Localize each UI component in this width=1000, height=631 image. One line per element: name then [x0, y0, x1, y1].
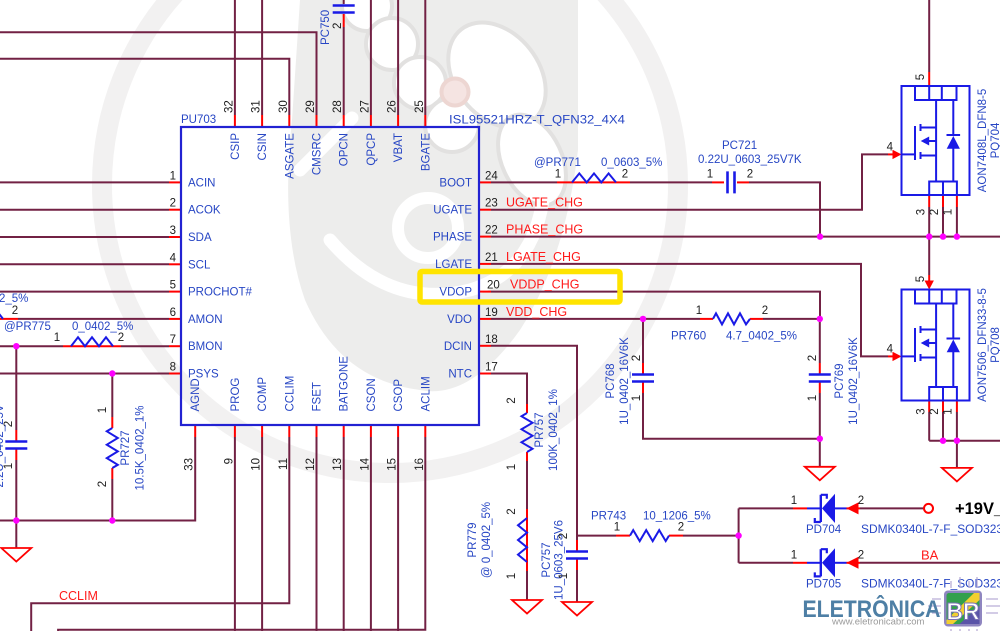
svg-text:5: 5: [915, 276, 927, 282]
svg-text:16: 16: [414, 458, 426, 471]
wire PC768 upper lead: [642, 319, 644, 363]
svg-text:BA: BA: [921, 548, 939, 563]
svg-text:4: 4: [887, 141, 894, 153]
rotated labels PQ708: [915, 276, 1000, 415]
junction PHASE_CHG at boot cap: [817, 233, 823, 239]
svg-text:PC769: PC769: [834, 363, 846, 398]
watermark fist-in-gear logo background: [102, 0, 678, 473]
red pin stubs of PU703: [169, 115, 491, 437]
svg-text:9: 9: [223, 458, 235, 464]
svg-text:NTC: NTC: [448, 369, 472, 381]
pin names bottom (rotated): [190, 356, 432, 412]
diode PD705: [807, 548, 847, 577]
wire cap to ground net: [15, 460, 17, 521]
svg-text:2: 2: [332, 23, 344, 29]
junction source bus at PQ708 pin1: [954, 438, 960, 444]
junction cap ground bus: [817, 436, 823, 442]
pin names top (rotated): [230, 133, 432, 179]
wire PC769 lower lead: [819, 393, 821, 439]
svg-text:14: 14: [359, 457, 371, 470]
wire PROG pin 9 down: [234, 437, 236, 631]
svg-text:PC721: PC721: [722, 140, 757, 152]
rotated labels PC757: [541, 520, 570, 600]
svg-text:1: 1: [506, 573, 518, 579]
rotated labels PR779: [467, 502, 518, 579]
wire net ASGATE horizontal + vertical to pin 30: [0, 59, 289, 115]
svg-text:4.7_0402_5%: 4.7_0402_5%: [726, 331, 797, 343]
svg-text:2: 2: [558, 533, 570, 539]
wire pin 28 below PC750: [343, 27, 345, 115]
ground symbol at PC757: [562, 602, 592, 616]
junction on AGND bus at PR727: [109, 517, 115, 523]
svg-text:2: 2: [858, 549, 864, 561]
svg-text:CSOP: CSOP: [393, 379, 405, 412]
capacitor PC750: [333, 6, 355, 13]
wire ACOK pin 2: [0, 209, 169, 211]
wire UGATE pin 23 to PQ704 gate: [491, 154, 888, 209]
wire PQ704 pin 5 to top edge: [928, 0, 930, 72]
ground symbol at PC769: [805, 467, 835, 481]
capacitor at bottom-left edge: [5, 442, 27, 449]
pin arrow into PQ708 gate: [893, 352, 902, 361]
svg-text:PC757: PC757: [541, 542, 553, 577]
wire BATGONE pin 13 down: [343, 437, 345, 631]
svg-text:0_0402_5%: 0_0402_5%: [72, 321, 133, 333]
svg-text:CSON: CSON: [366, 378, 378, 411]
svg-text:33: 33: [184, 458, 196, 471]
svg-text:PQ708: PQ708: [990, 327, 1000, 363]
capacitor PC757: [566, 552, 588, 559]
svg-text:OPCN: OPCN: [339, 133, 351, 166]
svg-text:@PR775: @PR775: [4, 321, 51, 333]
svg-text:4: 4: [887, 343, 894, 355]
resistor PR727 (vertical): [107, 428, 118, 468]
wire PR760 to PC769 junction: [763, 318, 820, 320]
wire net CSIN to top edge: [261, 0, 263, 115]
svg-text:5: 5: [915, 74, 927, 80]
wire PR779 to ground: [526, 571, 528, 600]
junction on BMON net: [13, 343, 19, 349]
svg-text:ISL95521HRZ-T_QFN32_4X4: ISL95521HRZ-T_QFN32_4X4: [449, 115, 626, 127]
svg-text:1: 1: [558, 573, 570, 579]
svg-text:PR779: PR779: [467, 522, 479, 557]
svg-text:PD705: PD705: [806, 579, 841, 591]
ground symbol at bottom-left cap: [1, 467, 972, 616]
svg-text:1: 1: [791, 549, 797, 561]
svg-text:1: 1: [97, 407, 109, 413]
junction on AGND bus left: [13, 517, 19, 523]
wire PHASE down to PQ708 pin 5: [928, 237, 930, 275]
wire net CSIP to top edge: [234, 0, 236, 115]
svg-text:FSET: FSET: [312, 382, 324, 411]
svg-text:BGATE: BGATE: [420, 133, 432, 171]
wire diode bracket vertical: [738, 508, 740, 562]
svg-text:32: 32: [223, 100, 235, 113]
rotated labels bottom-left capacitor: [0, 404, 15, 487]
wire ACLIM pin 16 down: [58, 437, 425, 631]
svg-text:VDDP_CHG: VDDP_CHG: [510, 278, 579, 292]
rotated labels PQ704: [915, 74, 1000, 215]
svg-text:PR727: PR727: [120, 430, 132, 465]
capacitor PC768: [632, 375, 654, 382]
svg-text:PROCHOT#: PROCHOT#: [188, 287, 253, 299]
svg-text:1: 1: [614, 522, 620, 534]
svg-text:2: 2: [858, 495, 864, 507]
svg-text:ASGATE: ASGATE: [284, 133, 296, 179]
wire FSET pin 12 down: [316, 437, 318, 631]
svg-text:+19V_: +19V_: [955, 500, 1000, 518]
svg-text:CCLIM: CCLIM: [59, 589, 98, 603]
svg-text:LGATE: LGATE: [435, 259, 472, 271]
svg-text:PR757: PR757: [534, 412, 546, 447]
svg-text:5: 5: [170, 280, 176, 292]
svg-text:1: 1: [555, 168, 561, 180]
ground symbol at PR779: [512, 600, 542, 614]
wire PR743 to diode tee junction: [683, 535, 739, 537]
wire BMON pin 7 left of PR775: [0, 345, 63, 347]
svg-text:8: 8: [170, 362, 176, 374]
svg-text:www.eletronicabr.com: www.eletronicabr.com: [831, 617, 924, 628]
svg-text:BATGONE: BATGONE: [339, 356, 351, 412]
junction source bus at PQ708 pin2: [940, 438, 946, 444]
wire PQ708 source bus to right edge: [929, 440, 1000, 442]
transistor PQ704 (MOSFET with body diode): [902, 86, 970, 195]
pin numbers right: [485, 170, 500, 373]
pin numbers bottom (rotated): [184, 457, 426, 470]
svg-text:PHASE_CHG: PHASE_CHG: [506, 223, 583, 237]
svg-text:12: 12: [305, 458, 317, 471]
svg-text:2: 2: [12, 305, 18, 317]
svg-text:1U_0402_16V6K: 1U_0402_16V6K: [619, 337, 631, 425]
svg-text:UGATE: UGATE: [433, 205, 472, 217]
svg-text:BOOT: BOOT: [439, 177, 472, 189]
svg-text:2: 2: [506, 508, 518, 514]
svg-text:BR: BR: [947, 599, 980, 626]
svg-text:1: 1: [943, 408, 955, 414]
svg-text:20: 20: [487, 280, 500, 292]
svg-text:28: 28: [332, 100, 344, 113]
logo ELETRONICA BR: [803, 577, 1000, 631]
wire PSYS pin 8: [0, 373, 169, 375]
svg-text:4: 4: [170, 252, 177, 264]
svg-text:1: 1: [791, 495, 797, 507]
svg-text:7: 7: [170, 334, 176, 346]
wire net BGATE to top edge: [424, 0, 426, 115]
wire net CMSRC horizontal + vertical to pin 29: [0, 32, 317, 115]
wire CCLIM pin 11 down: [31, 437, 289, 631]
svg-text:CCLIM: CCLIM: [284, 376, 296, 412]
svg-text:2: 2: [622, 168, 628, 180]
diode PD704: [807, 494, 847, 523]
svg-text:PQ704: PQ704: [990, 122, 1000, 158]
transistor PQ708 (MOSFET with body diode): [902, 290, 970, 401]
wire PD705 to BA net right edge: [860, 562, 1000, 564]
svg-text:17: 17: [485, 362, 498, 374]
svg-text:2: 2: [631, 355, 643, 361]
svg-text:2: 2: [807, 355, 819, 361]
svg-text:2: 2: [678, 522, 684, 534]
svg-text:3: 3: [916, 209, 928, 215]
svg-text:1: 1: [170, 170, 176, 182]
svg-text:1U_0402_16V6K: 1U_0402_16V6K: [848, 337, 860, 425]
svg-text:AMON: AMON: [188, 314, 223, 326]
wire net QPCP to top edge: [370, 0, 372, 115]
svg-text:PR743: PR743: [591, 511, 626, 523]
svg-text:27: 27: [359, 100, 371, 113]
svg-text:1: 1: [807, 395, 819, 401]
svg-text:COMP: COMP: [257, 377, 269, 412]
wire AMON pin 6: [18, 318, 169, 320]
svg-text:CSIP: CSIP: [230, 133, 242, 160]
svg-text:PROG: PROG: [230, 378, 242, 412]
wire PD704 to +19V terminal: [860, 507, 924, 509]
wire PC769 ground stub: [819, 439, 821, 467]
rotated labels PR757: [506, 389, 560, 471]
pin arrow into PQ704 gate: [893, 150, 902, 159]
pin arrow at PD704 pin 2: [847, 502, 859, 514]
resistor PR757 (vertical): [522, 413, 533, 452]
wire PC721 to PHASE junction: [749, 182, 820, 236]
wire PROCHOT# pin 5: [0, 291, 169, 293]
wire ACIN pin 1: [0, 181, 169, 183]
op-amp/IC PU703 body: [181, 127, 479, 425]
resistor PR760: [713, 313, 750, 324]
svg-text:2: 2: [170, 198, 176, 210]
svg-text:23: 23: [485, 198, 498, 210]
wire SDA pin 3: [0, 236, 169, 238]
svg-text:1: 1: [54, 332, 60, 344]
pin arrow into PQ708 pin 5: [925, 281, 934, 290]
pin numbers left: [170, 170, 177, 373]
svg-text:13: 13: [332, 458, 344, 471]
svg-text:31: 31: [251, 100, 263, 113]
svg-text:VDO: VDO: [447, 314, 472, 326]
svg-text:18: 18: [485, 334, 498, 346]
svg-text:VDD_CHG: VDD_CHG: [506, 305, 567, 319]
wire pin 28 above PC750 to top edge: [343, 0, 345, 4]
wire PQ708 ground stub: [956, 441, 958, 468]
wire PR727 to ground bus: [111, 479, 113, 521]
resistor PR771 0-ohm: [572, 173, 616, 182]
wire PQ704 source pins to PHASE: [928, 207, 930, 237]
wire BMON pin 7 right of PR775: [121, 345, 169, 347]
wire CSON pin 14 down: [370, 437, 372, 631]
svg-text:1: 1: [696, 305, 702, 317]
svg-text:11: 11: [278, 458, 290, 470]
wire PR757 to PR779: [526, 461, 528, 509]
svg-text:1: 1: [506, 464, 518, 470]
svg-text:19: 19: [485, 307, 498, 319]
svg-text:24: 24: [485, 170, 498, 182]
svg-text:@ 0_0402_5%: @ 0_0402_5%: [481, 502, 493, 578]
wire bracket to PD704: [739, 507, 793, 509]
svg-text:2: 2: [929, 209, 941, 215]
svg-text:ACLIM: ACLIM: [420, 376, 432, 411]
svg-text:SCL: SCL: [188, 259, 211, 271]
svg-text:AON7506_DFN33-8-5: AON7506_DFN33-8-5: [977, 288, 989, 402]
pin names right: [433, 177, 472, 380]
svg-text:2: 2: [506, 397, 518, 403]
wire VDOP pin 20 down to VDD junction: [491, 292, 820, 319]
wire BMON branch down to cap: [15, 346, 17, 430]
wire COMP pin 10 down: [261, 437, 263, 631]
wire LGATE pin 21 to PQ708 gate: [491, 264, 888, 357]
svg-text:PC768: PC768: [605, 363, 617, 398]
svg-text:2.2U_0402_25V: 2.2U_0402_25V: [0, 404, 6, 487]
svg-text:30: 30: [278, 100, 290, 113]
wire PC769 upper lead: [819, 319, 821, 363]
svg-text:26: 26: [387, 100, 399, 113]
svg-text:0_0603_5%: 0_0603_5%: [601, 157, 662, 169]
svg-text:ACIN: ACIN: [188, 177, 215, 189]
+19V terminal circle: [924, 504, 933, 513]
svg-text:6: 6: [170, 307, 176, 319]
pin names left: [188, 177, 253, 380]
svg-text:SDMK0340L-7-F_SOD323: SDMK0340L-7-F_SOD323: [861, 524, 1000, 536]
wire PC768 lower to cap bottom bus: [643, 393, 820, 439]
net labels: [59, 196, 939, 603]
svg-text:0.22U_0603_25V7K: 0.22U_0603_25V7K: [698, 154, 802, 166]
svg-text:2: 2: [762, 305, 768, 317]
wire AGND ground bus: [0, 437, 195, 521]
svg-text:SDMK0340L-7-F_SOD323: SDMK0340L-7-F_SOD323: [861, 579, 1000, 591]
svg-text:1: 1: [943, 209, 955, 215]
svg-text:29: 29: [305, 100, 317, 113]
svg-text:QPCP: QPCP: [366, 133, 378, 166]
svg-text:10: 10: [251, 458, 263, 471]
svg-text:CMSRC: CMSRC: [312, 133, 324, 175]
junction at diode tee: [735, 532, 741, 538]
resistor PR779 (vertical 0-ohm): [518, 518, 527, 562]
svg-text:2: 2: [929, 408, 941, 414]
svg-text:1U_0603_25V6: 1U_0603_25V6: [554, 520, 566, 600]
svg-text:PU703: PU703: [181, 114, 216, 126]
svg-text:PHASE: PHASE: [433, 232, 472, 244]
resistor PR775 0-ohm: [71, 337, 113, 346]
capacitor PC721: [728, 171, 735, 193]
svg-text:2: 2: [747, 168, 753, 180]
svg-text:PR760: PR760: [671, 331, 706, 343]
svg-text:25: 25: [414, 100, 426, 113]
svg-text:SDA: SDA: [188, 232, 212, 244]
junction VDD_CHG at PC769: [817, 316, 823, 322]
wire PSYS to PR727: [111, 374, 113, 418]
svg-text:LGATE_CHG: LGATE_CHG: [506, 250, 581, 264]
svg-text:100K_0402_1%: 100K_0402_1%: [548, 389, 560, 471]
junction PHASE_CHG at PQ704 pin2: [940, 233, 946, 239]
svg-text:ACOK: ACOK: [188, 205, 221, 217]
svg-text:15: 15: [387, 458, 399, 471]
svg-text:2_5%: 2_5%: [0, 293, 28, 305]
wire ground stub bottom left: [15, 521, 17, 549]
resistor (partial at left edge) on AMON: [0, 310, 3, 319]
svg-text:22: 22: [485, 225, 498, 237]
svg-text:AON7408L_DFN8-5: AON7408L_DFN8-5: [977, 89, 989, 193]
svg-text:10.5K_0402_1%: 10.5K_0402_1%: [135, 405, 147, 490]
ground symbol at PQ708 source: [942, 468, 972, 482]
highlight box on VDDP_CHG net: [420, 272, 620, 303]
svg-text:3: 3: [916, 408, 928, 414]
svg-text:@PR771: @PR771: [534, 157, 581, 169]
wire PC757 to ground: [576, 570, 578, 602]
junction PHASE_CHG at PQ704 pin3: [926, 233, 932, 239]
wire BOOT pin 24 to PR771: [491, 181, 557, 183]
svg-text:VDOP: VDOP: [439, 287, 472, 299]
svg-text:VBAT: VBAT: [393, 133, 405, 162]
wire PQ708 source pins down: [928, 412, 930, 441]
svg-text:21: 21: [485, 252, 498, 264]
wire NTC pin 17 down to PR757: [491, 374, 527, 405]
wire VDD pin 19 to PC768 junction: [491, 318, 700, 320]
junction PHASE_CHG at PQ704 pin1: [954, 233, 960, 239]
wire net VBAT to top edge: [397, 0, 399, 115]
junction on PSYS net: [109, 370, 115, 376]
svg-text:CSIN: CSIN: [257, 133, 269, 160]
wire PR771 to PC721: [630, 181, 712, 183]
rotated labels PC769: [807, 337, 860, 425]
svg-text:1: 1: [631, 395, 643, 401]
rotated labels PR727: [97, 405, 147, 490]
svg-text:UGATE_CHG: UGATE_CHG: [506, 196, 583, 210]
wire bracket to PD705: [739, 562, 793, 564]
rotated labels PC768: [0, 0, 643, 425]
wire DCIN pin 18 down to PC757 node: [491, 346, 577, 540]
junction VDD_CHG at PC768: [640, 316, 646, 322]
svg-text:2: 2: [118, 332, 124, 344]
svg-text:AGND: AGND: [190, 378, 202, 411]
svg-text:3: 3: [170, 225, 176, 237]
pin numbers top (rotated): [223, 100, 425, 113]
resistor PR743: [630, 530, 669, 541]
wire PC757 node to PR743: [577, 535, 616, 537]
wire CSOP pin 15 down: [397, 437, 399, 631]
svg-text:BMON: BMON: [188, 341, 223, 353]
wire SCL pin 4: [0, 263, 169, 265]
capacitor PC769: [809, 375, 831, 382]
wire PHASE pin 22 to right edge: [491, 236, 1000, 238]
svg-text:DCIN: DCIN: [444, 341, 472, 353]
svg-text:2: 2: [97, 481, 109, 487]
pin arrow at PD705 pin 2: [847, 557, 859, 569]
svg-text:PD704: PD704: [806, 524, 842, 536]
svg-text:PC750: PC750: [320, 10, 332, 45]
svg-text:1: 1: [707, 168, 713, 180]
